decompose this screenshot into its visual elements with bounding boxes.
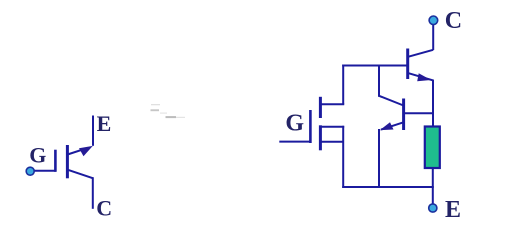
svg-text:E: E xyxy=(97,111,112,136)
svg-text:G: G xyxy=(285,110,304,136)
svg-text:C: C xyxy=(445,8,462,34)
svg-text:E: E xyxy=(445,197,461,223)
svg-text:G: G xyxy=(29,143,46,168)
svg-text:C: C xyxy=(96,196,112,221)
